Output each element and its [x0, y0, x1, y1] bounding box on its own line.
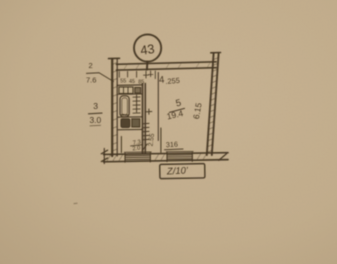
interior partition vertical double: [141, 84, 143, 154]
svg-text:43: 43: [139, 41, 155, 58]
top wall inner line: [117, 68, 217, 70]
toilet dark: [121, 119, 130, 128]
underline of 316: [165, 148, 184, 151]
sink rect: [119, 87, 133, 94]
svg-text:85: 85: [138, 79, 144, 85]
underline below 3.0: [90, 124, 101, 127]
bottom wall outer line: [104, 160, 229, 162]
line under toilets: [118, 128, 142, 130]
left wall: [111, 59, 113, 156]
svg-text:316: 316: [166, 140, 178, 150]
fraction bar and leader line to wall: [87, 73, 114, 82]
svg-text:Z/10’: Z/10’: [166, 165, 190, 177]
window W1 sill line: [124, 151, 151, 153]
svg-text:3: 3: [93, 101, 98, 111]
hatching right wall: [207, 58, 218, 153]
svg-text:.255: .255: [165, 76, 180, 86]
circle label 43: [134, 34, 161, 61]
partition dark infill: [143, 84, 145, 153]
fraction bar of 7.3/2.0: [131, 145, 143, 146]
apartment box: [160, 164, 205, 179]
partition right line: [144, 84, 146, 154]
interior partition top (bath ceiling line): [117, 84, 143, 87]
pipe column right of tub: [136, 95, 138, 112]
svg-text:55: 55: [120, 79, 126, 85]
dimension extension line at 316: [160, 128, 162, 153]
window W2 inner panes: [167, 155, 193, 159]
plus tick near partition: [146, 109, 152, 114]
bottom wall inner line: [104, 153, 229, 155]
right wall top cap: [211, 52, 221, 54]
bathtub: [120, 96, 129, 117]
svg-text:3.0: 3.0: [90, 115, 102, 125]
svg-text:7.6: 7.6: [86, 76, 96, 85]
hatching top wall: [124, 63, 210, 70]
window W2 jamb ticks: [167, 153, 192, 162]
top wall outer line: [117, 62, 217, 65]
right wall inner line: [212, 54, 219, 156]
left wall inner line: [116, 59, 118, 156]
right wall: [207, 54, 214, 156]
leader stem from circle to top wall: [146, 62, 149, 70]
small cabinet right of sink: [135, 88, 141, 94]
small cross ticks above partition: [144, 74, 154, 77]
hatching left wall: [112, 63, 117, 152]
left wall top cap: [109, 57, 120, 59]
fraction bar of 3/3.0: [89, 112, 103, 115]
svg-text:2.0: 2.0: [132, 145, 141, 152]
door dash column in partition: [143, 123, 149, 139]
cistern dark: [132, 119, 140, 127]
heater rungs: [133, 97, 140, 113]
door jamb line: [120, 137, 122, 153]
dimension slash near door: [143, 144, 148, 150]
bathtub inner outline: [122, 98, 128, 115]
hatching bottom wall piers: [107, 153, 207, 161]
shelf line under tub: [118, 116, 142, 118]
hall/room partition line: [157, 73, 159, 141]
window W1 jamb ticks: [125, 153, 150, 162]
paper speck: [74, 202, 77, 204]
svg-text:45: 45: [129, 79, 135, 85]
dimension tick group bottom-left: [103, 149, 105, 164]
dimension slash bottom-right: [219, 154, 227, 161]
tick row under top wall: [119, 71, 155, 79]
bathtub drain marks: [122, 114, 128, 116]
dimension slashes bottom-left: [101, 150, 107, 161]
svg-text:2: 2: [89, 61, 93, 70]
window W1 inner panes: [125, 155, 151, 159]
bath block top line: [118, 93, 142, 95]
sink dividers: [124, 87, 129, 94]
window W2 sill line: [166, 150, 193, 152]
fraction bar of 5/19.4: [170, 108, 185, 112]
